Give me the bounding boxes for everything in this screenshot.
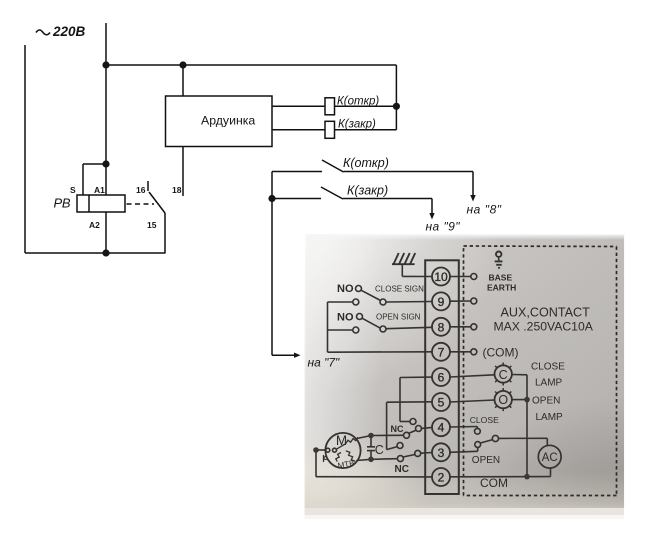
svg-text:MAX .250VAC10A: MAX .250VAC10A xyxy=(494,320,594,334)
svg-text:LAMP: LAMP xyxy=(535,378,563,389)
svg-text:NC: NC xyxy=(395,464,409,475)
svg-text:OPEN: OPEN xyxy=(472,455,500,466)
svg-text:CLOSE: CLOSE xyxy=(470,415,499,425)
svg-text:К(откр): К(откр) xyxy=(337,96,379,108)
svg-text:S: S xyxy=(70,185,76,195)
svg-text:EARTH: EARTH xyxy=(487,283,516,293)
svg-text:220В: 220В xyxy=(52,24,86,39)
svg-text:16: 16 xyxy=(136,185,146,195)
svg-text:O: O xyxy=(498,393,508,407)
svg-text:8: 8 xyxy=(438,320,445,334)
svg-text:A1: A1 xyxy=(94,185,105,195)
svg-text:OPEN: OPEN xyxy=(532,396,560,407)
svg-text:6: 6 xyxy=(438,371,445,385)
svg-text:3: 3 xyxy=(438,446,445,460)
svg-text:C: C xyxy=(375,443,384,457)
svg-text:на "7": на "7" xyxy=(308,356,341,370)
svg-text:C: C xyxy=(499,368,508,382)
svg-text:A2: A2 xyxy=(89,220,100,230)
svg-text:на "8": на "8" xyxy=(467,203,502,217)
svg-text:5: 5 xyxy=(438,396,445,410)
svg-text:BASE: BASE xyxy=(489,273,513,283)
svg-text:2: 2 xyxy=(438,471,445,485)
svg-text:OPEN SIGN: OPEN SIGN xyxy=(376,313,421,322)
svg-text:7: 7 xyxy=(438,345,445,359)
svg-text:NC: NC xyxy=(391,424,404,434)
svg-text:LAMP: LAMP xyxy=(536,412,564,423)
svg-text:4: 4 xyxy=(438,421,445,435)
svg-text:NO: NO xyxy=(337,312,354,324)
svg-text:COM: COM xyxy=(480,476,508,490)
svg-text:РВ: РВ xyxy=(54,196,71,211)
svg-text:CLOSE: CLOSE xyxy=(531,362,565,373)
svg-text:К(закр): К(закр) xyxy=(338,119,376,131)
svg-text:10: 10 xyxy=(434,270,448,284)
svg-text:AUX,CONTACT: AUX,CONTACT xyxy=(501,306,591,320)
svg-text:15: 15 xyxy=(147,220,157,230)
svg-text:NO: NO xyxy=(337,283,354,295)
svg-text:M: M xyxy=(336,433,347,448)
svg-text:18: 18 xyxy=(172,185,182,195)
svg-text:К(откр): К(откр) xyxy=(343,156,389,170)
svg-text:9: 9 xyxy=(438,295,445,309)
svg-text:на "9": на "9" xyxy=(426,220,461,234)
svg-text:AC: AC xyxy=(542,452,558,464)
svg-text:CLOSE SIGN: CLOSE SIGN xyxy=(375,285,424,294)
svg-text:Ардуинка: Ардуинка xyxy=(201,113,255,127)
svg-text:(COM): (COM) xyxy=(483,345,519,359)
svg-text:К(закр): К(закр) xyxy=(347,184,388,198)
